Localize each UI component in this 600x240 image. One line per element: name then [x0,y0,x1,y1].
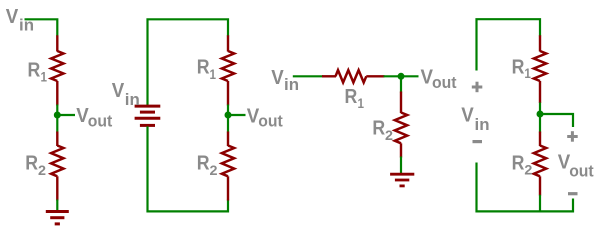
svg-text:2: 2 [210,162,218,178]
wire: R1 to node (circuit 2) [227,105,229,116]
svg-text:V: V [271,66,284,89]
label + (source positive, circuit 4) [472,82,483,93]
label R1 (circuit 3) [345,85,365,111]
label - (output negative, circuit 4) [568,192,578,195]
svg-text:out: out [258,112,283,131]
svg-text:R: R [197,56,210,79]
label R2 (circuit 2) [197,152,218,178]
label Vout (circuit 3) [421,66,457,92]
resistor R1 horizontal (circuit 3) [322,70,385,82]
wire: R2 to ground (circuit 3) [400,157,402,175]
resistor R1 (circuit 4) [534,35,546,103]
svg-text:R: R [345,85,358,108]
wire: node stub to + output terminal (circuit 4) [540,114,573,127]
ground (circuit 1) [46,212,69,224]
svg-text:R: R [372,117,385,140]
svg-text:2: 2 [38,162,46,178]
wire: source negative to bottom rail (circuit 4) [477,163,541,212]
wire: battery negative to bottom rail to R2 (circuit 2) [148,126,229,211]
label + (output positive, circuit 4) [567,131,578,142]
ground (circuit 3) [390,174,414,186]
node Vout junction (circuit 2) [225,112,246,119]
label R2 (circuit 3) [372,117,393,144]
svg-text:1: 1 [210,66,217,82]
svg-text:1: 1 [524,65,531,81]
label Vin (circuit 4) [461,104,489,134]
resistor R2 (circuit 1) [51,132,63,201]
label R2 (circuit 1) [25,152,46,178]
svg-text:2: 2 [524,162,532,178]
resistor R2 (circuit 3) [395,92,407,158]
label Vout (circuit 4) [558,151,594,181]
wire: source positive to top rail to R1 (circuit 4) [477,19,541,70]
svg-text:R: R [512,56,525,79]
svg-text:out: out [88,112,113,131]
wire: node to R2 (circuit 4) [539,114,541,133]
label Vout (circuit 2) [247,104,283,130]
wire: R1 to Vout (circuit 3) [384,75,419,77]
svg-text:in: in [475,115,490,134]
label R1 (circuit 4) [512,56,531,81]
wire: battery positive to top rail to R1 (circuit 2) [148,19,229,105]
wire: node to R2 (circuit 1) [56,115,58,133]
label - (source negative, circuit 4) [473,140,483,143]
svg-text:V: V [6,5,19,28]
wire: R1 to node (circuit 1) [56,105,58,116]
label R1 (circuit 1) [28,59,48,85]
wire: Vin to R1 top (circuit 1) [25,19,58,36]
svg-text:in: in [125,90,140,109]
wire: R1 to node (circuit 4) [539,103,541,115]
node Vout junction (circuit 1) [54,112,75,119]
wire: R2 bottom to bottom rail (circuit 4) [539,195,541,212]
wire: R2 to ground (circuit 1) [56,200,58,212]
wire: - output terminal stub (circuit 4) [540,199,573,212]
node label Vin (circuit 1) [6,5,34,35]
svg-text:1: 1 [358,95,365,111]
wire: Vin to R1 (circuit 3) [293,75,323,77]
wire: node to R2 (circuit 3) [400,76,402,92]
wire: node to R2 (circuit 2) [227,115,229,133]
node label Vin (circuit 3) [271,66,299,94]
svg-text:out: out [569,161,594,180]
svg-text:2: 2 [385,127,393,143]
svg-text:out: out [432,73,457,92]
node junction (circuit 4) [537,111,544,118]
label Vin (circuit 2) [112,79,140,109]
svg-text:R: R [512,152,525,175]
svg-text:V: V [112,79,125,102]
resistor R2 (circuit 2) [222,132,234,201]
battery Vin (circuit 2) [135,106,161,125]
svg-text:R: R [25,152,38,175]
resistor R2 (circuit 4) [534,132,546,196]
label Vout (circuit 1) [76,104,112,131]
label R2 (circuit 4) [512,152,533,178]
svg-text:V: V [461,104,474,127]
resistor R1 (circuit 2) [222,35,234,105]
resistor R1 (circuit 1) [51,35,63,105]
node junction (circuit 3) [398,73,405,80]
svg-text:1: 1 [41,69,48,85]
svg-text:R: R [197,152,210,175]
label R1 (circuit 2) [197,56,216,82]
svg-text:R: R [28,59,41,82]
svg-text:in: in [284,75,299,94]
